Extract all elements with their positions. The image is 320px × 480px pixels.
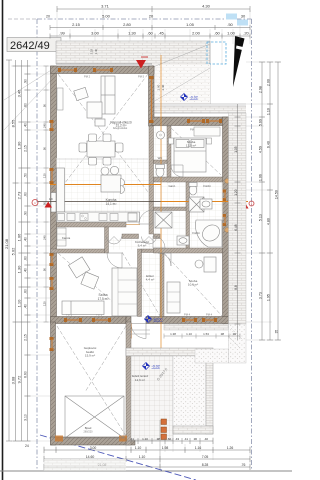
inner left dimension chain xyxy=(44,66,49,322)
covered terrace top border xyxy=(126,348,213,356)
svg-text:1.10: 1.10 xyxy=(142,437,148,441)
kitchen counter bottom xyxy=(57,212,140,222)
svg-text:1.26: 1.26 xyxy=(227,446,234,450)
door arc bedroom1 xyxy=(171,165,183,177)
exterior wall left xyxy=(51,66,57,322)
svg-text:.50: .50 xyxy=(227,22,233,27)
section arrow top xyxy=(136,60,146,69)
orange section line vertical xyxy=(160,55,162,440)
bottom road line xyxy=(0,470,292,472)
svg-text:±0.00: ±0.00 xyxy=(154,318,163,322)
fridge xyxy=(128,213,137,221)
svg-text:5.13: 5.13 xyxy=(258,214,262,221)
downpipe circles xyxy=(225,179,229,183)
svg-text:Gard.: Gard. xyxy=(169,184,176,188)
street boundary diagonal xyxy=(40,435,196,480)
shower 2 xyxy=(155,212,172,228)
extension lines bottom xyxy=(44,437,250,468)
window labels xyxy=(66,75,218,317)
svg-text:35: 35 xyxy=(274,330,278,334)
svg-text:2.73: 2.73 xyxy=(17,191,22,200)
svg-text:.98: .98 xyxy=(220,332,225,336)
door arc entrance xyxy=(131,324,146,339)
pavement strip street side xyxy=(44,459,126,471)
washbasin 2 xyxy=(177,236,189,245)
island chairs xyxy=(121,179,125,187)
interior wall corridor left xyxy=(138,249,142,317)
pavement strip right side of house xyxy=(229,113,247,324)
covered terrace tile floor xyxy=(131,356,173,440)
garage left wall xyxy=(51,322,56,445)
section marker circle left xyxy=(32,200,38,206)
shower 1 xyxy=(189,197,204,212)
svg-text:90: 90 xyxy=(42,268,46,272)
svg-text:.43: .43 xyxy=(175,437,180,441)
svg-text:90: 90 xyxy=(42,147,46,151)
bottom dimension row 2 xyxy=(44,447,250,453)
entrance steps xyxy=(127,329,150,331)
svg-text:6,4 m²: 6,4 m² xyxy=(138,244,147,248)
sliding door to terrace xyxy=(151,78,153,122)
covered terrace right border xyxy=(206,356,213,434)
svg-text:10,6 m²: 10,6 m² xyxy=(188,283,198,287)
svg-text:2.15: 2.15 xyxy=(24,334,28,341)
svg-text:.41: .41 xyxy=(184,437,189,441)
svg-text:6.60: 6.60 xyxy=(24,371,28,378)
garage crossed pad xyxy=(65,396,124,438)
section line left dark xyxy=(38,201,161,203)
svg-text:1.40: 1.40 xyxy=(94,48,98,54)
extension line terrace edge xyxy=(159,420,161,468)
svg-text:PM 2: PM 2 xyxy=(84,75,91,79)
bath toilet xyxy=(189,183,197,196)
svg-text:PM 4: PM 4 xyxy=(184,313,191,317)
section arrow left xyxy=(45,202,53,208)
sofa xyxy=(87,76,115,118)
svg-text:.96: .96 xyxy=(193,437,198,441)
door arc bedroom2 xyxy=(158,253,171,266)
svg-text:90: 90 xyxy=(42,202,46,206)
interior wall bath bottom xyxy=(154,248,223,253)
svg-text:3.00: 3.00 xyxy=(90,446,97,450)
svg-text:5.00: 5.00 xyxy=(102,14,111,19)
svg-text:240: 240 xyxy=(42,235,46,240)
svg-text:2.00: 2.00 xyxy=(192,31,201,36)
section marker circle right xyxy=(249,201,254,206)
svg-text:2.60: 2.60 xyxy=(157,84,161,90)
window left wall kitchen xyxy=(50,168,54,171)
interior wall kitchen bottom xyxy=(57,222,127,227)
svg-text:2642/49: 2642/49 xyxy=(10,40,50,52)
svg-text:1.10: 1.10 xyxy=(17,299,22,308)
orange heating line xyxy=(50,184,161,186)
window left wall upper xyxy=(50,120,54,123)
level diamond -0.02 xyxy=(181,94,198,101)
room label szoba2 xyxy=(188,279,198,287)
svg-text:3.08: 3.08 xyxy=(11,376,16,385)
gravel apron bottom-right corner xyxy=(229,324,247,363)
svg-text:Fürdő: Fürdő xyxy=(192,231,200,235)
leader lines to corner xyxy=(4,67,56,100)
svg-text:Bpad: Bpad xyxy=(85,426,92,430)
svg-text:PM 5: PM 5 xyxy=(138,75,145,79)
svg-text:1.05: 1.05 xyxy=(186,22,195,27)
left dimension column 1 xyxy=(6,60,12,441)
svg-text:.60: .60 xyxy=(24,103,28,108)
interior wall kamra-corridor vertical xyxy=(105,227,109,253)
sink xyxy=(67,214,75,221)
windows right wing top wall xyxy=(189,120,204,122)
svg-text:3.18: 3.18 xyxy=(90,48,94,54)
room label szoba left xyxy=(98,293,109,301)
appliance xyxy=(99,214,107,221)
parcel label 2642/49 xyxy=(7,38,61,52)
property boundary top xyxy=(37,18,252,20)
svg-text:.45: .45 xyxy=(158,31,164,36)
gravel strip below terrace band xyxy=(195,349,229,363)
window right wall 1 xyxy=(222,190,226,193)
tv bench top room xyxy=(95,119,105,126)
garage bottom wall xyxy=(51,437,136,445)
svg-text:1.30: 1.30 xyxy=(17,141,22,150)
svg-text:2.80: 2.80 xyxy=(123,22,132,27)
svg-text:1.06: 1.06 xyxy=(17,233,22,242)
svg-text:1.10: 1.10 xyxy=(186,332,192,336)
interior wall bedroom1 bottom xyxy=(154,177,223,182)
svg-text:24: 24 xyxy=(25,444,29,448)
svg-text:.90: .90 xyxy=(24,211,28,216)
svg-text:.40: .40 xyxy=(24,123,28,128)
kitchen island xyxy=(101,175,121,192)
svg-text:PM 4: PM 4 xyxy=(206,313,213,317)
bar stools xyxy=(101,167,109,175)
svg-text:1.10: 1.10 xyxy=(266,108,270,115)
svg-text:.60: .60 xyxy=(24,256,28,261)
garage right wall xyxy=(126,322,131,445)
bottom dimension ticks row xyxy=(126,438,213,444)
door arc bath xyxy=(153,236,165,248)
svg-text:-0.02: -0.02 xyxy=(152,365,160,369)
entrance wall piece xyxy=(126,317,131,324)
window top-left PM1 xyxy=(60,69,112,71)
svg-text:1.30: 1.30 xyxy=(17,265,22,274)
svg-text:1.20: 1.20 xyxy=(234,189,238,195)
svg-text:30: 30 xyxy=(241,14,246,19)
svg-text:.90: .90 xyxy=(232,332,237,336)
garage corner posts xyxy=(55,436,63,442)
roof projection dashed diagonals xyxy=(57,74,222,436)
interior wall eloter top xyxy=(142,249,161,253)
svg-text:8.55: 8.55 xyxy=(11,119,16,128)
exterior wall bottom right wing xyxy=(146,317,229,324)
top-right covered terrace floor xyxy=(152,64,210,104)
svg-text:2.00: 2.00 xyxy=(266,79,270,86)
section arrow right xyxy=(241,202,249,209)
covered terrace gravel area xyxy=(173,356,206,434)
svg-text:4.59: 4.59 xyxy=(258,146,262,153)
entry level diamond xyxy=(145,316,163,323)
bottom dimension row 4 xyxy=(44,464,250,470)
north arrow xyxy=(233,36,245,87)
svg-text:12,5 m²: 12,5 m² xyxy=(186,144,196,148)
door arc kitchen-room xyxy=(107,253,122,268)
svg-text:90: 90 xyxy=(42,104,46,108)
nightstands xyxy=(169,138,174,144)
right inner dimension chain xyxy=(235,104,241,340)
window top-left frame marks xyxy=(58,68,113,72)
svg-text:.50: .50 xyxy=(24,173,28,178)
svg-text:5.69: 5.69 xyxy=(258,119,262,126)
boundary continuation left xyxy=(8,18,37,20)
svg-text:-0.02: -0.02 xyxy=(190,96,198,100)
kitchen counter left xyxy=(57,168,65,212)
door fan corridor 1 xyxy=(107,237,122,245)
bottom dimension row 3 xyxy=(44,456,250,462)
wc room toilet xyxy=(156,165,165,178)
left dimension column 4 xyxy=(25,60,31,441)
hob xyxy=(80,214,88,221)
svg-text:.40: .40 xyxy=(24,304,28,309)
svg-text:14.60: 14.60 xyxy=(86,455,95,459)
svg-text:3.00: 3.00 xyxy=(91,31,100,36)
svg-text:1/9: 1/9 xyxy=(49,197,53,201)
desk bedroom2 xyxy=(204,257,216,272)
svg-text:2.15: 2.15 xyxy=(72,22,81,27)
svg-text:4.30: 4.30 xyxy=(202,4,211,9)
right dimension column 3 xyxy=(275,62,281,340)
svg-text:2.98: 2.98 xyxy=(258,86,262,93)
svg-text:3.71: 3.71 xyxy=(101,4,110,9)
svg-text:4.80: 4.80 xyxy=(266,218,270,225)
exterior wall terrace side xyxy=(149,66,155,126)
svg-text:WC: WC xyxy=(158,156,163,160)
svg-text:1.98: 1.98 xyxy=(162,446,169,450)
svg-text:8.28: 8.28 xyxy=(202,463,209,467)
window right wall 2 xyxy=(222,214,226,217)
svg-text:17,5 m²: 17,5 m² xyxy=(98,297,109,301)
heating pipe kitchen wall xyxy=(57,224,140,226)
tv cabinet left wall xyxy=(57,88,63,110)
terrace level diamond xyxy=(143,363,160,370)
wardrobe bedroom2 xyxy=(167,282,180,313)
property boundary left xyxy=(36,19,38,469)
interior wall bedroom1 left xyxy=(167,126,171,182)
exterior wall right xyxy=(223,117,229,324)
interior wall left-wing / right-wing divider xyxy=(149,126,154,234)
svg-text:7.05: 7.05 xyxy=(202,455,209,459)
svg-text:15,9 m²: 15,9 m² xyxy=(85,354,95,358)
svg-text:3.73: 3.73 xyxy=(258,292,262,299)
svg-text:.41: .41 xyxy=(130,437,135,441)
interior wall bedroom2 left xyxy=(160,253,164,317)
terrace roof diagonals xyxy=(153,68,210,102)
svg-text:1.53: 1.53 xyxy=(203,332,209,336)
svg-text:6.40: 6.40 xyxy=(266,141,270,148)
svg-text:.60: .60 xyxy=(24,289,28,294)
drawing frame left border xyxy=(2,0,4,480)
svg-text:hidegburkolat: hidegburkolat xyxy=(113,127,128,130)
interior wall gard divider horizontal xyxy=(154,207,187,211)
pavement band top xyxy=(56,41,210,104)
svg-text:6.48: 6.48 xyxy=(234,224,238,230)
wc corridor floor tiles xyxy=(154,126,168,182)
door left wall kitchen (white) xyxy=(51,193,56,213)
svg-text:1.16: 1.16 xyxy=(195,446,202,450)
bath zone floor tiles xyxy=(154,182,223,248)
wardrobe bedroom-left xyxy=(112,268,137,316)
terrace label xyxy=(132,374,149,382)
top dimension row 1 xyxy=(57,6,250,12)
svg-text:8.8: 8.8 xyxy=(234,285,238,290)
kitchen floor tiles xyxy=(57,158,149,222)
interior wall corridor top segments xyxy=(122,234,139,239)
top dimension row 3 xyxy=(50,25,250,30)
interior wall wc top xyxy=(154,160,168,164)
pavement strip below right wing xyxy=(164,324,229,330)
garage window xyxy=(50,337,54,340)
dining table xyxy=(79,134,123,165)
right dimension column 1 xyxy=(259,62,265,340)
blue highlight marks xyxy=(226,14,237,20)
svg-text:1.30: 1.30 xyxy=(128,31,137,36)
svg-text:.40: .40 xyxy=(24,237,28,242)
corridor floor tiles xyxy=(109,239,161,250)
svg-text:14.50: 14.50 xyxy=(274,190,278,199)
svg-text:2.15: 2.15 xyxy=(24,145,28,152)
svg-text:3.10: 3.10 xyxy=(24,414,28,421)
svg-text:1.10: 1.10 xyxy=(139,455,146,459)
interior wall bath divider vertical xyxy=(186,182,190,248)
room label kozlekedo xyxy=(135,240,149,248)
svg-text:20: 20 xyxy=(46,15,50,19)
property boundary right xyxy=(251,19,253,469)
svg-text:Kamra: Kamra xyxy=(62,236,71,240)
extension lines left xyxy=(11,66,50,441)
svg-text:9.72: 9.72 xyxy=(17,375,22,384)
room label konyha xyxy=(106,198,117,206)
svg-text:.76: .76 xyxy=(241,463,246,467)
chair bedroom2 xyxy=(195,260,203,268)
covered terrace bottom border xyxy=(173,426,213,434)
section line right orange xyxy=(161,201,248,203)
exterior wall top (right wing) xyxy=(152,117,229,126)
svg-text:.60: .60 xyxy=(24,192,28,197)
eaves strip over right wing wall xyxy=(152,106,246,113)
pantry shelves xyxy=(57,228,66,246)
svg-text:1.95: 1.95 xyxy=(266,294,270,301)
svg-text:260/220: 260/220 xyxy=(83,431,93,434)
floor boundary living/dining xyxy=(57,158,148,160)
svg-text:.20: .20 xyxy=(243,31,249,36)
svg-text:.98: .98 xyxy=(156,437,161,441)
svg-text:4,4 m²: 4,4 m² xyxy=(146,278,155,282)
coffee table xyxy=(74,87,89,100)
svg-text:120: 120 xyxy=(42,173,46,178)
svg-text:1.05: 1.05 xyxy=(234,146,238,152)
svg-text:20: 20 xyxy=(149,14,154,19)
orange column markers on section line xyxy=(161,419,167,440)
door arc kitchen-corridor xyxy=(139,210,153,224)
svg-text:12,6 m²: 12,6 m² xyxy=(135,378,145,382)
room label nappali xyxy=(110,121,131,131)
exterior wall top (left wing) xyxy=(51,66,155,74)
armchair 1 bottom-left room xyxy=(69,257,91,278)
room label eloter xyxy=(146,274,155,282)
svg-text:1.00: 1.00 xyxy=(227,31,236,36)
extension lines right xyxy=(246,62,280,340)
svg-text:21.08: 21.08 xyxy=(4,238,9,249)
wardrobe bedroom1 xyxy=(194,127,220,136)
svg-text:.60: .60 xyxy=(147,31,153,36)
door fan corridor 2 xyxy=(142,237,157,245)
room label szoba1 xyxy=(186,140,196,148)
extension lines top xyxy=(57,10,250,66)
window left wall room lower 1 xyxy=(50,253,54,256)
svg-text:.60: .60 xyxy=(214,31,220,36)
svg-text:5.02: 5.02 xyxy=(11,247,16,256)
svg-text:.40: .40 xyxy=(24,268,28,273)
window left wall room lower 2 xyxy=(50,277,54,280)
bed bedroom1 xyxy=(174,138,206,172)
exterior wall bottom left wing xyxy=(51,317,127,324)
left dimension column 2 xyxy=(13,60,19,441)
svg-text:3.46: 3.46 xyxy=(17,89,22,98)
dashed planned box xyxy=(207,42,226,64)
svg-text:.99: .99 xyxy=(59,31,65,36)
svg-text:120: 120 xyxy=(42,301,46,306)
svg-text:Fürdő: Fürdő xyxy=(203,184,211,188)
windows bottom walls xyxy=(66,319,81,321)
corner bathtub xyxy=(195,220,222,247)
svg-text:1.06: 1.06 xyxy=(258,174,262,181)
bed bottom-left room xyxy=(62,301,104,315)
svg-text:.40: .40 xyxy=(204,437,209,441)
dim ticks row below right wing xyxy=(164,334,240,339)
water heater xyxy=(157,131,165,139)
left dimension column 3 xyxy=(19,60,25,441)
top dimension row 4 xyxy=(50,34,250,39)
right dimension column 2 xyxy=(267,62,273,340)
svg-text:2.40: 2.40 xyxy=(161,84,165,90)
interior wall pantry bottom xyxy=(51,249,105,253)
svg-text:1.38: 1.38 xyxy=(170,332,176,336)
garage label xyxy=(84,346,97,358)
armchair 2 bottom-left room xyxy=(81,272,99,289)
svg-text:1.10: 1.10 xyxy=(135,446,142,450)
svg-text:240: 240 xyxy=(42,123,46,128)
svg-text:.60: .60 xyxy=(167,437,172,441)
washbasin bath xyxy=(200,199,212,209)
svg-text:14,1 m²: 14,1 m² xyxy=(106,202,117,206)
svg-text:.90: .90 xyxy=(24,79,28,84)
